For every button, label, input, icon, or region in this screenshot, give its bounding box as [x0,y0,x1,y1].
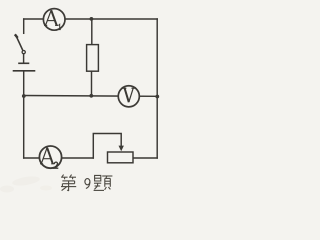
wire bottom right (rheostat to right border) [133,157,157,159]
node left middle [22,94,26,98]
wire switch to battery [23,54,25,63]
ammeter A1 circle [43,9,65,31]
ammeter A2 circle [39,146,61,168]
switch blade tip blob [16,35,17,37]
wire middle rail (voltmeter row) [24,95,158,98]
node right middle [155,95,159,99]
paper background [0,0,169,195]
ammeter A1 subscript 1 [59,24,61,29]
resistor R [87,45,99,72]
switch pivot contact [22,51,25,54]
voltmeter V circle [118,86,139,107]
caption: digit 9 [85,179,90,189]
wire bottom rail [24,157,94,159]
wire left border upper (corner to switch) [23,19,25,33]
rheostat arrow head [119,146,124,152]
voltmeter V letter [123,88,135,102]
node center middle [89,94,93,98]
wire resistor bottom stub [91,71,93,96]
ammeter A2 letter A [40,148,55,164]
wire resistor top stub [91,19,93,45]
caption: hanzi DI (first) [61,175,76,191]
battery positive plate (long) [14,70,35,72]
ammeter A2 subscript 2 [54,162,58,168]
node top (junction dot) [90,17,94,21]
wire top: battery branch top rail [24,18,158,20]
faint scan smudges [12,175,41,187]
wire rheostat slider arm (staircase) [93,134,121,159]
wire right border [156,19,158,158]
switch S (open knife switch) [16,36,23,51]
wire left border lower (battery to bottom corner) [23,72,25,159]
battery negative plate (short) [19,62,29,64]
rheostat box [108,152,134,163]
ammeter A1 letter A [44,10,58,25]
caption: hanzi TI (problem) [94,175,113,190]
